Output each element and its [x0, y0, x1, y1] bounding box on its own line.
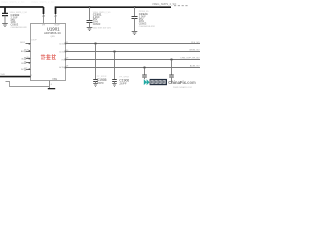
capacitor C1905: [93, 80, 98, 82]
capacitor C1907: [142, 75, 147, 77]
wire drop to C1908: [171, 60, 173, 76]
wire VSS bold stub: [48, 88, 55, 89]
watermark logo box 迅维网: [150, 79, 167, 85]
value label C1901: [93, 12, 111, 26]
svg-text:ADP3806-3C: ADP3806-3C: [44, 31, 61, 35]
watermark logo arrow: [144, 79, 150, 85]
svg-text:WWW.CHINAFIX.COM: WWW.CHINAFIX.COM: [173, 86, 192, 89]
dashed continuation marks: [174, 5, 188, 7]
wire net A drop to pin 28: [43, 7, 45, 14]
pin stub left row1: [26, 43, 31, 45]
svg-text:C0603HP08-X5R: C0603HP08-X5R: [11, 27, 28, 29]
svg-text:C0603: C0603: [139, 22, 147, 26]
svg-text:ACIN: ACIN: [59, 66, 64, 69]
svg-text:BO1: BO1: [20, 42, 25, 44]
pin stub left row5: [26, 69, 31, 71]
svg-text:CLS_SO: CLS_SO: [191, 42, 200, 44]
svg-text:VREG_SMPS_2_SO: VREG_SMPS_2_SO: [1, 1, 24, 4]
capacitor C1901: [87, 21, 93, 23]
node junction row3/C1908: [171, 59, 173, 61]
svg-text:VDDP: VDDP: [54, 25, 60, 27]
svg-text:5VB: 5VB: [1, 74, 6, 76]
wire VSS branch: [6, 82, 50, 87]
svg-text:CLS1: CLS1: [59, 44, 65, 46]
wire net A drop to C1902: [4, 7, 6, 13]
ground (C1906): [112, 84, 117, 87]
node junction at C1901 tap: [89, 6, 91, 8]
IC U1901 charger controller box: [31, 24, 66, 81]
capacitor C1924: [132, 17, 138, 19]
capacitor C1902: [2, 13, 8, 23]
pin stub left row3: [26, 58, 31, 60]
svg-text:BO: BO: [21, 51, 24, 53]
wire drop to C1905: [95, 44, 97, 80]
pin 27 lead: [55, 14, 57, 24]
ground (C1924): [132, 32, 138, 35]
wire drop to C1907: [144, 68, 146, 76]
capacitor C1924 lead from net B: [134, 7, 136, 16]
wire net A (bold) top-left horizontal: [0, 6, 44, 8]
svg-text:ACIN_SO: ACIN_SO: [190, 65, 200, 68]
svg-text:C0603: C0603: [93, 22, 101, 26]
svg-text:0402 X5R 16V 10%: 0402 X5R 16V 10%: [93, 28, 111, 30]
svg-text:VREG_SMPS_2_SO: VREG_SMPS_2_SO: [31, 1, 54, 4]
node junction row4/C1907: [144, 67, 146, 69]
pin stub left row4: [26, 62, 31, 64]
svg-text:VREG_SMPS_2_SO: VREG_SMPS_2_SO: [152, 2, 176, 6]
svg-text:26PF: 26PF: [119, 82, 126, 86]
value label C1924: [139, 11, 156, 28]
wire drop to C1906: [114, 52, 116, 80]
node junction row2/C1906: [114, 51, 116, 53]
svg-text:C0603HP08-X5R: C0603HP08-X5R: [139, 26, 156, 28]
svg-text:VSS: VSS: [52, 79, 57, 81]
capacitor C1901 lead from net B: [89, 7, 91, 20]
wire right row4: [66, 67, 201, 69]
svg-text:3C: 3C: [21, 59, 24, 61]
wire right row1: [66, 43, 201, 45]
svg-text:ChinaFix.com: ChinaFix.com: [168, 80, 196, 85]
capacitor C1906: [112, 80, 117, 82]
capacitor C1908: [169, 75, 174, 77]
svg-text:DHI: DHI: [42, 25, 46, 27]
svg-text:26PF: 26PF: [97, 81, 104, 85]
svg-text:QFN: QFN: [50, 36, 55, 38]
ground (C1901): [87, 28, 93, 31]
wire right row3: [66, 59, 201, 61]
pin blobs right edge: [65, 43, 67, 45]
ground (C1902): [2, 24, 8, 27]
svg-text:3O: 3O: [21, 63, 24, 65]
wire net B (bold) top horizontal: [56, 7, 172, 14]
wire right row2: [66, 51, 201, 53]
ground (C1905): [93, 84, 98, 87]
svg-text:DC: DC: [21, 69, 25, 71]
svg-text:CSOP: CSOP: [31, 40, 37, 42]
pin 28 lead: [43, 14, 45, 24]
value label C1902: [10, 12, 28, 29]
svg-text:CLS2: CLS2: [59, 52, 65, 54]
node junction row1/C1905: [95, 43, 97, 45]
wire B+ (bold) bottom-left: [0, 76, 31, 78]
svg-text:CHG_OVP_TH_SO: CHG_OVP_TH_SO: [180, 58, 200, 60]
node junction at C1924 tap: [134, 6, 136, 8]
pin stub left row2: [26, 51, 31, 53]
svg-text:C0603: C0603: [11, 23, 19, 27]
svg-text:IMON_SO: IMON_SO: [189, 50, 199, 52]
red watermark text 指南针: [41, 54, 56, 59]
